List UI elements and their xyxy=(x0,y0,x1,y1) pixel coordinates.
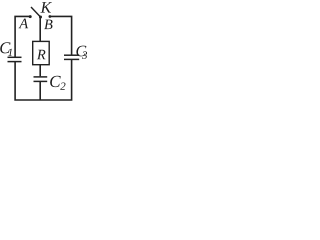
node A dot xyxy=(29,15,32,18)
label R xyxy=(37,50,46,59)
label C2 xyxy=(50,76,65,90)
wire C2 down, bottom wire, and right vertical up to C3 xyxy=(39,81,41,100)
capacitor C2 bottom plate xyxy=(34,80,48,82)
wire switch pivot down to resistor R xyxy=(39,17,41,41)
resistor R box xyxy=(33,41,50,64)
label K xyxy=(40,2,52,12)
node B dot xyxy=(49,15,52,18)
wire bottom rail with left and right risers xyxy=(15,59,72,100)
capacitor C3 top plate xyxy=(64,54,79,56)
label C3 xyxy=(76,46,87,59)
capacitor C2 top plate xyxy=(34,76,48,78)
wire resistor R down to C2 xyxy=(39,65,41,77)
switch K blade (open, pivot to upper-left) xyxy=(31,7,41,17)
label A xyxy=(19,19,29,29)
wire node B to top-right corner and right vertical down to C3 xyxy=(50,16,72,54)
wire top-left to node A and left vertical down to C1 xyxy=(15,16,30,57)
label C1 xyxy=(0,42,12,56)
capacitor C1 bottom plate xyxy=(8,61,22,63)
capacitor C3 bottom plate xyxy=(64,58,79,60)
capacitor C1 top plate xyxy=(8,56,22,58)
switch pivot dot xyxy=(39,16,42,19)
label B xyxy=(44,20,52,30)
